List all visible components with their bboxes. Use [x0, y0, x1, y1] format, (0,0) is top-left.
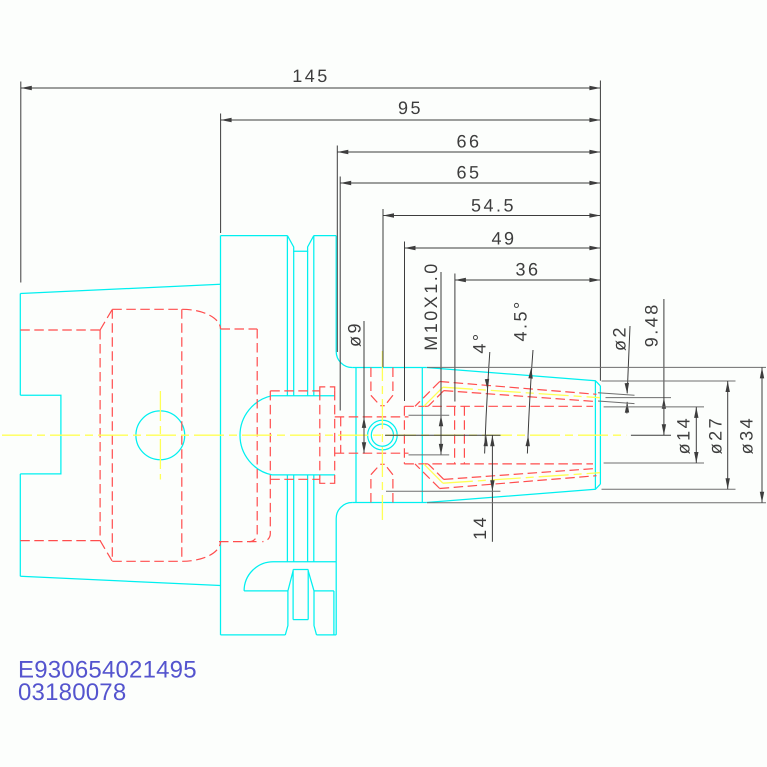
svg-text:ø14: ø14: [673, 416, 693, 455]
dim dia14: [694, 407, 698, 463]
CENTERLINES: [2, 351, 626, 520]
collet shoulder a: [454, 406, 456, 464]
angular dim 4.5deg: [526, 350, 534, 454]
radial hole centerline: [381, 351, 383, 520]
dim line 65: [340, 181, 600, 185]
slit upper edge a: [440, 382, 597, 395]
dim line 66: [337, 150, 600, 154]
ext line 36: [454, 274, 456, 402]
svg-text:9.48: 9.48: [642, 302, 662, 347]
flange left face: [220, 236, 222, 635]
taper top edge: [20, 284, 220, 293]
groove projection line a: [286, 236, 288, 562]
bottom slot right inner face: [333, 591, 335, 635]
bore step vertical d: [249, 329, 257, 542]
svg-text:ø27: ø27: [705, 416, 725, 455]
ext line 65: [339, 177, 341, 411]
nut front face: [599, 386, 601, 484]
nut front chamfer line: [594, 381, 596, 490]
dim line 95: [221, 118, 601, 122]
flange bottom edge right: [317, 634, 337, 636]
coolant tube circle: [136, 411, 185, 460]
svg-text:65: 65: [456, 163, 481, 183]
bottom slot right shelf: [314, 590, 334, 592]
thread relief tab top: [320, 387, 335, 391]
ext line 66: [336, 146, 338, 353]
drive slot bullet: [240, 396, 335, 475]
bore arc top: [182, 309, 220, 329]
pilot bore bottom: [335, 452, 409, 454]
dim line 145: [21, 86, 601, 90]
slit lower diag a: [415, 464, 440, 489]
pilot bore top: [335, 416, 409, 418]
ext dia27 top: [602, 380, 736, 382]
nose bottom edge: [352, 502, 426, 504]
bore step line b: [111, 309, 113, 561]
bore bottom line left: [20, 540, 100, 542]
dim dia27: [726, 381, 730, 489]
svg-text:14: 14: [470, 515, 490, 540]
groove projection line c: [307, 251, 309, 561]
radial hole top: [371, 368, 393, 406]
slit lower diag b: [428, 464, 444, 480]
collet bore bottom: [404, 463, 593, 465]
bore step vertical e: [262, 391, 270, 542]
nose face line a: [355, 368, 357, 503]
slit ext line b: [598, 401, 635, 404]
bore step line a: [99, 330, 101, 541]
dim line 49: [405, 246, 601, 250]
dia2 leader: [625, 326, 630, 414]
dim dia34: [760, 367, 764, 502]
svg-text:66: 66: [456, 132, 481, 152]
pilot bore left chamfer: [340, 417, 342, 453]
ext line left 145: [20, 82, 22, 283]
svg-text:49: 49: [491, 229, 516, 249]
bottom slot left wall: [285, 571, 293, 635]
flange right face lower with fillet: [336, 503, 352, 635]
ext centerline black: [385, 434, 501, 436]
bottom ledge: [244, 562, 336, 591]
svg-text:03180078: 03180078: [18, 679, 126, 706]
dim line 54.5: [383, 213, 600, 217]
flange top edge: [221, 235, 288, 237]
M10 leader dim: [439, 272, 443, 455]
collet bore top: [404, 405, 593, 407]
bore shoulder bottom: [270, 478, 320, 480]
shank left face upper: [19, 294, 21, 396]
taper bottom edge: [20, 576, 220, 585]
nose top edge: [352, 367, 426, 369]
PART-CYAN: [20, 236, 600, 635]
slit upper centerline diag: [424, 387, 443, 406]
main centerline: [2, 434, 626, 436]
thread relief vertical a: [319, 391, 321, 479]
ext line 54.5: [382, 209, 384, 367]
slit ext line a: [598, 393, 635, 396]
groove projection line d: [313, 236, 315, 562]
bottom ledge shelf: [244, 590, 288, 592]
flange bottom edge: [221, 634, 286, 636]
M10 thread ext bottom: [409, 454, 450, 456]
slit lower centerline: [443, 473, 600, 484]
bore top line right: [221, 328, 258, 330]
flange top edge right: [314, 235, 336, 237]
svg-text:4°: 4°: [470, 331, 490, 353]
bore arc bottom: [182, 542, 220, 562]
PART-RED: [20, 309, 597, 561]
thread relief vertical b: [334, 391, 336, 479]
bore bottom line right: [219, 541, 257, 543]
slit upper diag b: [428, 391, 444, 407]
dim 9.48: [662, 299, 666, 435]
bore bottom line mid: [112, 560, 182, 562]
svg-text:36: 36: [515, 260, 540, 280]
ext dia34 bottom: [427, 502, 766, 504]
thread circle inner: [371, 424, 393, 446]
dim line 36: [455, 278, 601, 282]
radial hole bottom: [371, 464, 393, 502]
ext dia14 bottom: [604, 462, 704, 464]
svg-text:ø2: ø2: [610, 325, 630, 351]
svg-text:ø9: ø9: [345, 321, 365, 347]
ext line 95: [220, 114, 222, 234]
DIMS: [21, 81, 766, 542]
ext 14 bottom: [386, 490, 500, 492]
slit lower edge b: [444, 468, 597, 479]
slit upper centerline: [443, 387, 600, 398]
ext line right main: [599, 81, 601, 381]
bore chamfer top left: [100, 309, 112, 330]
bottom slot inner left: [292, 570, 294, 620]
nut rear face: [421, 368, 423, 503]
ext dia14 top: [604, 406, 704, 408]
slit lower edge a: [440, 476, 597, 489]
dim 14: [490, 435, 494, 542]
slit upper diag a: [415, 382, 440, 407]
thread relief tab bottom: [320, 479, 335, 483]
bore step line c: [181, 309, 183, 561]
ext dia27 bottom: [602, 488, 736, 490]
groove projection line b: [293, 251, 295, 561]
svg-text:95: 95: [398, 98, 423, 118]
svg-text:ø34: ø34: [737, 416, 757, 455]
thread circle outer: [368, 420, 398, 450]
dia9 leader dim: [362, 321, 366, 453]
left end notch: [20, 395, 61, 474]
flange right face upper with fillet: [336, 236, 352, 368]
svg-text:M10X1.0: M10X1.0: [421, 261, 441, 351]
svg-text:54.5: 54.5: [471, 196, 516, 216]
nut taper bottom: [426, 484, 600, 502]
bottom slot inner right: [307, 570, 309, 620]
slit lower centerline diag: [424, 464, 443, 483]
shank left face lower: [19, 474, 21, 576]
nut taper top: [426, 368, 600, 386]
M10 thread ext top: [409, 414, 450, 416]
bottom slot inner bottom: [293, 619, 308, 621]
angular dim 4deg: [484, 352, 490, 454]
bottom slot inner rect: [293, 569, 308, 571]
collet shoulder b: [463, 406, 465, 464]
ext line 49: [404, 242, 406, 402]
ext 9.48 bottom: [631, 434, 671, 436]
V-groove top: [287, 236, 313, 252]
slit center ext: [606, 397, 672, 399]
svg-text:4.5°: 4.5°: [511, 299, 531, 341]
collet bore left face: [403, 406, 405, 464]
bore top line left: [20, 329, 100, 331]
bore shoulder top: [270, 390, 320, 392]
svg-text:145: 145: [292, 66, 330, 86]
bore chamfer bottom left: [100, 541, 112, 562]
ext dia34 top: [427, 366, 766, 368]
bore top line mid: [112, 308, 182, 310]
bottom slot right wall: [308, 571, 316, 635]
slit upper edge b: [444, 391, 597, 402]
coolant circle centerline: [159, 391, 161, 480]
